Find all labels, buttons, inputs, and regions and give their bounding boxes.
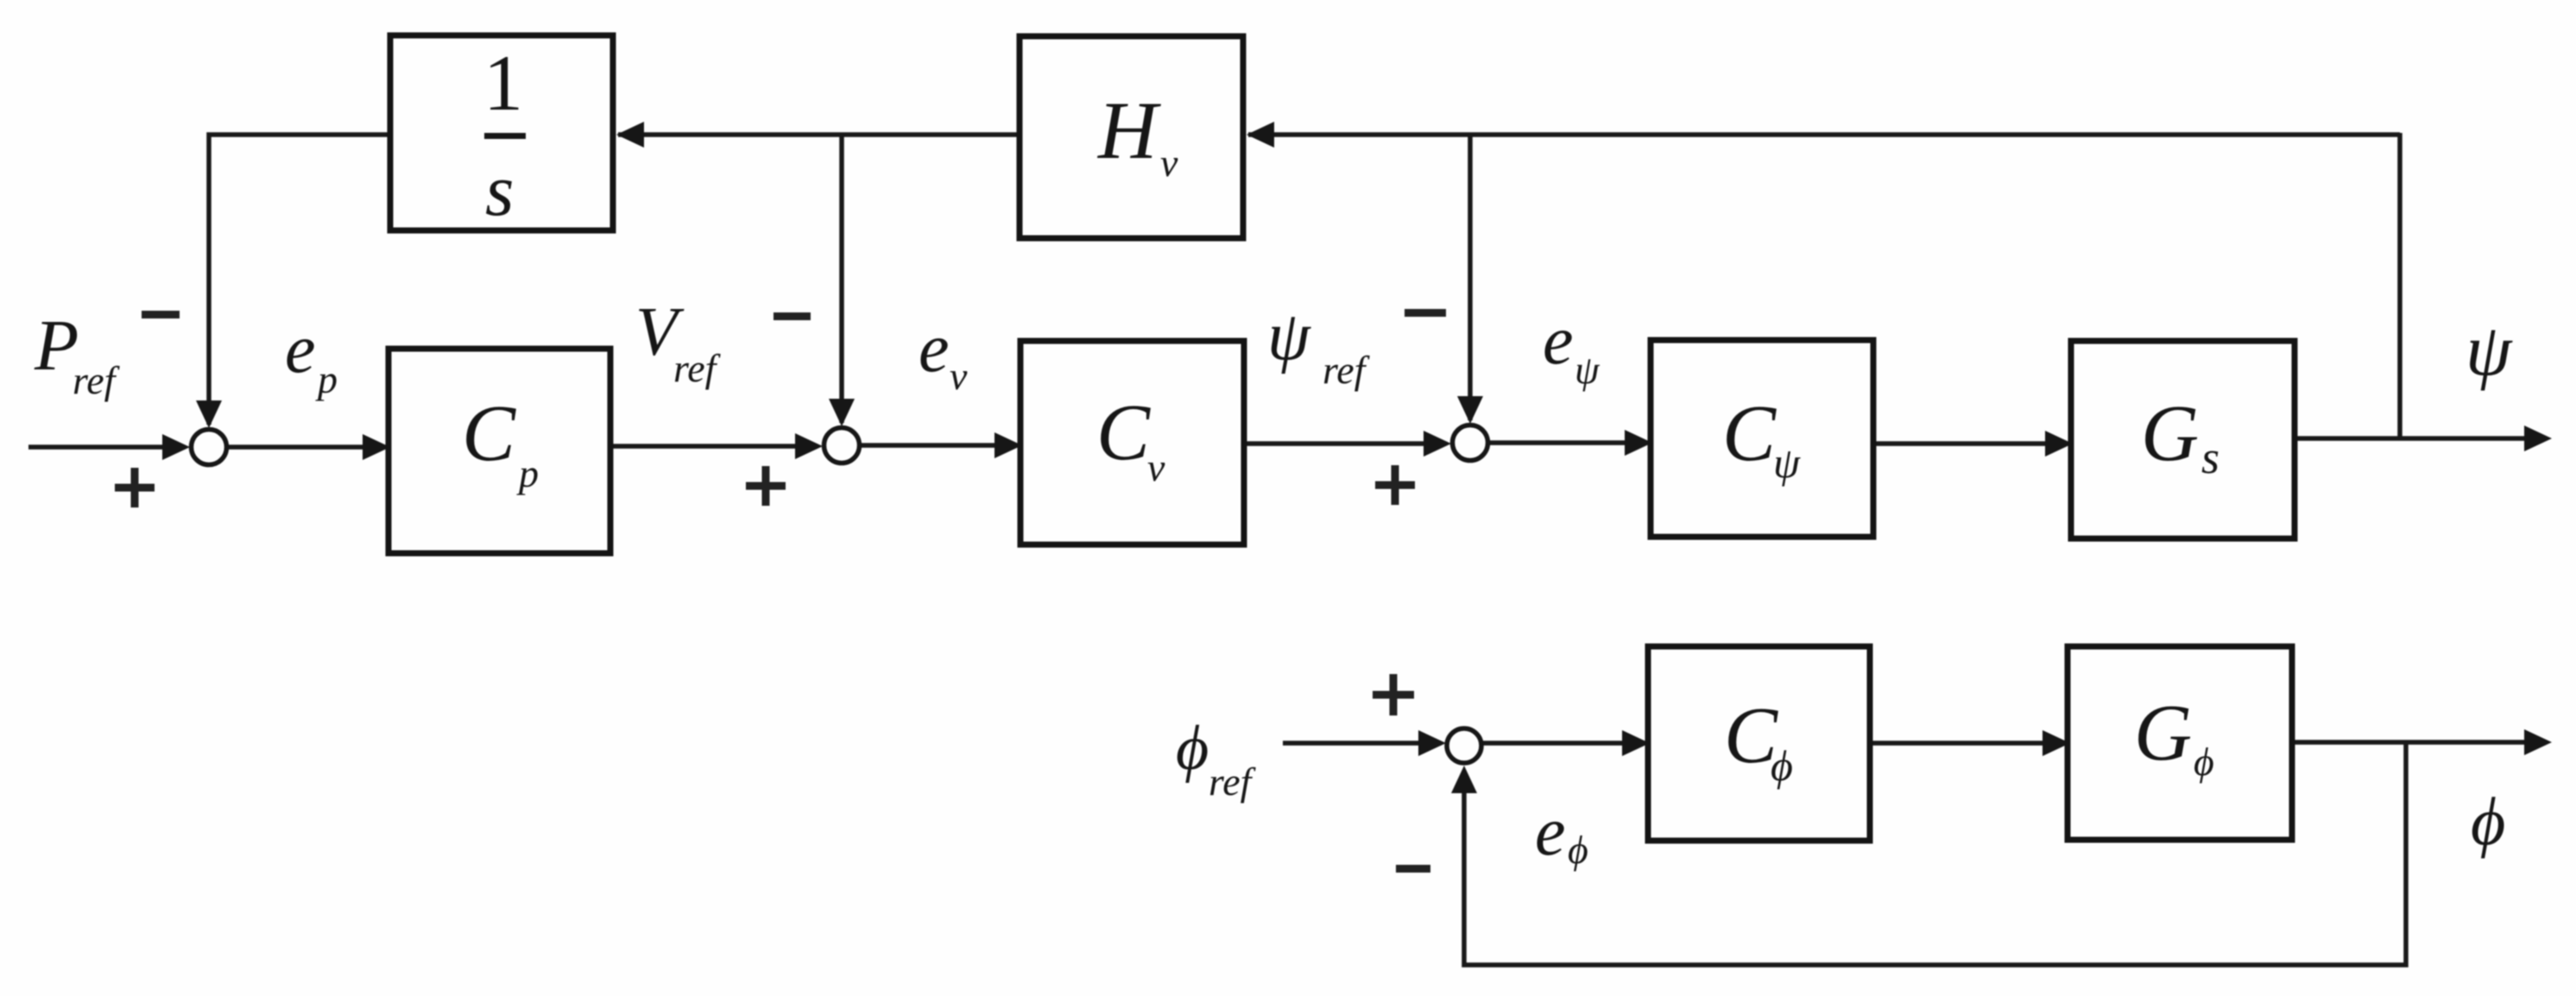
wire: psi pickoff riser — [2397, 133, 2402, 438]
wire: 1/s output to node above J1 (top line left segment) — [209, 135, 390, 425]
wire: G_s to psi output — [2295, 436, 2545, 441]
wire: C_psi to G_s — [1873, 441, 2067, 446]
plus at J4 — [1373, 674, 1414, 715]
wire: J3 to C_psi — [1490, 440, 1647, 445]
block C_phi — [1648, 646, 1870, 841]
svg-text:C: C — [1722, 389, 1777, 478]
block G_s — [2071, 341, 2295, 539]
wire: C_v to J3 — [1244, 441, 1446, 446]
minus at J1 — [142, 311, 180, 318]
wire: J4 to C_phi — [1483, 741, 1644, 746]
svg-text:ψ: ψ — [2466, 308, 2513, 391]
plus at J3 — [1375, 465, 1415, 505]
wire: phi_ref input into J4 — [1283, 741, 1441, 746]
svg-text:G: G — [2134, 689, 2192, 778]
wire: G_phi to phi output — [2292, 740, 2545, 745]
wire: phi feedback drop, bottom run, and rise into J4 — [1464, 742, 2406, 965]
arrowhead: down into J3 — [1457, 396, 1483, 424]
wire: drop from feedback line to J3 — [1468, 135, 1473, 420]
arrowhead: into G_phi — [2042, 730, 2070, 756]
svg-text:ψ: ψ — [1575, 348, 1601, 392]
block C_v — [1020, 341, 1244, 545]
minus at J2 — [773, 312, 811, 320]
arrowhead: into G_s — [2045, 431, 2073, 457]
svg-text:ϕ: ϕ — [1176, 713, 1209, 784]
wire: drop from top line to J2 — [839, 135, 844, 423]
block G_phi — [2068, 646, 2292, 840]
wire: J1 to C_p — [229, 444, 385, 450]
arrowhead: into C_phi — [1622, 730, 1650, 756]
svg-text:e: e — [1535, 794, 1566, 870]
block H_v — [1020, 36, 1243, 238]
arrowhead: into J1 (P_ref input) — [162, 434, 190, 460]
svg-text:ref: ref — [1323, 348, 1371, 392]
minus at J4 — [1396, 865, 1430, 873]
plus at J2 — [746, 466, 786, 506]
svg-text:ϕ: ϕ — [2194, 740, 2214, 784]
svg-text:ϕ: ϕ — [1771, 741, 1793, 790]
svg-text:v: v — [950, 354, 968, 398]
arrowhead: psi output — [2524, 426, 2552, 451]
svg-text:p: p — [516, 451, 539, 495]
plus at J1 — [115, 468, 155, 507]
arrowhead: down into J1 — [196, 400, 222, 428]
svg-text:ϕ: ϕ — [2471, 784, 2505, 859]
svg-text:v: v — [1160, 141, 1178, 185]
svg-text:p: p — [315, 357, 338, 401]
svg-text:v: v — [1147, 445, 1165, 489]
svg-text:s: s — [485, 148, 514, 231]
block 1/s (integrator) — [390, 35, 613, 230]
svg-text:ref: ref — [73, 358, 121, 402]
block C_psi — [1651, 340, 1873, 537]
svg-text:ψ: ψ — [1773, 438, 1801, 487]
arrowhead: into 1/s (feedback) — [616, 122, 644, 148]
arrowhead: into H_v (feedback) — [1247, 122, 1274, 148]
minus at J3 — [1405, 309, 1446, 317]
arrowhead: phi output — [2524, 729, 2552, 755]
wire: C_phi to G_phi — [1870, 741, 2064, 746]
fraction bar of 1/s — [484, 133, 526, 139]
wire: C_p to J2 — [610, 444, 818, 449]
wire: psi feedback from riser to H_v input (top line right segment) — [1248, 132, 2400, 137]
arrowhead: up into J4 (phi feedback) — [1451, 766, 1477, 793]
arrowhead: into C_v — [994, 432, 1022, 458]
wire: J2 to C_v — [862, 443, 1017, 448]
arrowhead: into C_p — [363, 434, 390, 460]
svg-text:ϕ: ϕ — [1568, 828, 1588, 872]
arrowhead: down into J2 — [829, 399, 855, 426]
wire: H_v output to 1/s input (top line middle segment) — [618, 132, 1020, 137]
svg-text:e: e — [1543, 303, 1574, 379]
wire: P_ref input into J1 — [28, 444, 185, 450]
svg-text:e: e — [919, 311, 950, 387]
svg-text:C: C — [1096, 388, 1151, 477]
svg-text:ref: ref — [673, 346, 722, 390]
block C_p — [388, 349, 610, 553]
svg-text:C: C — [462, 389, 516, 478]
svg-text:e: e — [285, 312, 316, 388]
svg-text:ψ: ψ — [1267, 299, 1311, 375]
junction J1 (P summing) — [192, 430, 227, 465]
junction J2 (V summing) — [824, 428, 860, 463]
svg-text:ref: ref — [1209, 760, 1257, 804]
arrowhead: into J3 — [1424, 431, 1451, 457]
arrowhead: into C_psi — [1625, 430, 1652, 456]
junction J4 (phi summing) — [1447, 728, 1481, 763]
svg-text:1: 1 — [483, 39, 523, 127]
svg-text:s: s — [2201, 432, 2219, 483]
arrowhead: into J2 — [795, 433, 823, 459]
svg-text:H: H — [1096, 85, 1161, 176]
svg-text:G: G — [2141, 389, 2199, 478]
junction J3 (psi summing) — [1453, 426, 1488, 461]
arrowhead: into J4 (phi_ref input) — [1418, 730, 1446, 756]
